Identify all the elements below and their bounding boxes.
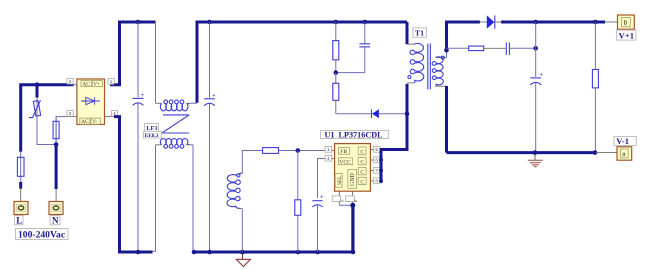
- svg-text:8: 8: [375, 179, 378, 184]
- varistor RV (on L-N): [29, 98, 41, 118]
- wire top rail section 2 (primary HV rail): [197, 22, 407, 103]
- svg-text:GND: GND: [350, 173, 356, 186]
- node junction clamp: [334, 70, 339, 75]
- terminal V-1: [617, 147, 632, 160]
- node junction clamp cap on rail2: [363, 20, 368, 25]
- wire IC ground drop (thick): [351, 205, 354, 252]
- pin 4 of U1 (VCC): [325, 155, 335, 161]
- node junction VCC cap bottom: [315, 250, 320, 255]
- node junction varistor tap on L wire: [35, 82, 40, 87]
- wire bulk cap C1 upper lead: [137, 22, 139, 97]
- node junction rail2 / cap C2: [207, 20, 212, 25]
- terminal L: [14, 202, 28, 215]
- resistor R-snub: [469, 46, 484, 51]
- wire right bottom rail (primary ground rail): [193, 205, 353, 252]
- svg-text:4: 4: [327, 156, 330, 161]
- wire V+1 terminal lead: [605, 21, 618, 23]
- pin 3 of bridge: [67, 111, 77, 117]
- op-amp U1 body (controller IC): [335, 144, 371, 192]
- node junction pin7 on bus: [379, 169, 383, 173]
- inductor LF1 bottom winding: [156, 144, 162, 146]
- wire VCC pin to cap: [318, 159, 325, 198]
- wire C-out lower lead: [535, 83, 537, 153]
- capacitor C1 (bulk electrolytic, left): [133, 93, 145, 105]
- bridge rectifier BR1 body: [77, 79, 105, 125]
- diode D-clamp (pointing left): [372, 109, 408, 118]
- node junction pins 2-3: [350, 203, 355, 208]
- svg-text:C: C: [360, 160, 364, 166]
- wire VCC cap bottom lead: [317, 205, 319, 252]
- resistor R-clamp2: [333, 73, 339, 114]
- node junction pin6 on bus: [379, 158, 383, 162]
- node junction earth on output rail: [533, 150, 538, 155]
- svg-text:0: 0: [624, 19, 628, 27]
- terminal N: [49, 202, 63, 215]
- wire pin2 hook to pin3 node: [339, 204, 352, 206]
- capacitor C-vcc (VCC bypass): [312, 195, 324, 207]
- capacitor C2 (bulk electrolytic, right): [204, 94, 216, 106]
- wire cap C2 lower lead to bottom rail: [209, 104, 211, 252]
- svg-text:AC: AC: [82, 82, 90, 88]
- wire L lower stub: [19, 182, 22, 189]
- svg-text:V-: V-: [92, 119, 97, 125]
- wire choke input drop (rail1 end down to LF1 top winding): [155, 22, 157, 103]
- node junction on rail1 for bulk cap C1: [136, 20, 141, 25]
- resistor R-fb (series FB resistor): [263, 148, 325, 154]
- resistor R-clamp1: [333, 22, 339, 73]
- svg-text:N: N: [52, 215, 59, 225]
- svg-text:+: +: [320, 195, 324, 201]
- node junction LF1 right terminal: [192, 250, 197, 255]
- svg-text:LF1: LF1: [146, 125, 157, 132]
- wire bridge pin4 down to left bottom rail: [114, 117, 153, 252]
- wire LF1 bottom-left terminal down to left bottom rail: [152, 145, 156, 251]
- wire LF1 top winding right end to rail2 corner: [190, 102, 197, 104]
- node junction C-out on rail3: [533, 20, 538, 25]
- svg-text:2: 2: [69, 79, 72, 84]
- LF1 core (Z shape): [162, 115, 189, 133]
- svg-text:LP3716CDL: LP3716CDL: [339, 130, 384, 139]
- transformer T1 primary winding: [407, 43, 424, 83]
- node junction pin8 on bus: [379, 179, 383, 183]
- terminal V+1: [618, 15, 635, 29]
- wire bulk cap C1 lower lead to bottom rail: [137, 103, 139, 252]
- svg-text:6: 6: [375, 158, 378, 163]
- svg-text:AC: AC: [81, 119, 89, 125]
- transformer T1 core: [428, 44, 431, 90]
- wire L terminal lead: [20, 189, 22, 202]
- pin 4 of bridge: [105, 111, 118, 117]
- svg-text:7: 7: [375, 168, 378, 173]
- wire drain bus (pins 5-8 to transformer primary): [381, 84, 407, 182]
- svg-text:100-240Vac: 100-240Vac: [18, 230, 66, 241]
- label U1 LP3716CDL: [321, 130, 389, 139]
- wire clamp to diode: [336, 113, 372, 115]
- wire snubber from secondary node: [447, 47, 469, 49]
- pin 5 of U1: [370, 146, 381, 152]
- wire V-1 terminal lead: [596, 152, 617, 154]
- svg-text:C: C: [360, 179, 364, 185]
- svg-text:V+1: V+1: [619, 30, 634, 40]
- resistor R-NTC (inrush, N line): [53, 117, 59, 145]
- wire LF1 bottom-right terminal down to right bottom rail: [192, 145, 194, 252]
- capacitor C-clamp: [359, 22, 370, 73]
- wire C-out upper lead: [535, 22, 537, 77]
- node junction clamp resistor on rail2: [334, 20, 339, 25]
- node junction IC ground drop corner: [351, 250, 356, 255]
- pin 7 of U1: [370, 167, 381, 173]
- svg-text:C: C: [360, 170, 364, 176]
- diode D-out (output rectifier, pointing right): [487, 15, 495, 28]
- pin 2 of bridge: [67, 78, 77, 84]
- resistor R-load: [592, 22, 598, 153]
- node junction drain / clamp diode: [405, 111, 410, 116]
- wire rail2 corner down to T1 primary: [406, 22, 409, 44]
- fuse F (on L line): [17, 152, 24, 182]
- wire top rail section 3 (output): [447, 22, 481, 50]
- node junction FB divider bottom: [296, 250, 301, 255]
- svg-text:T1: T1: [415, 29, 424, 38]
- label V+1: [617, 30, 636, 40]
- wire L input top (terminal to bridge pin2 row): [21, 85, 74, 152]
- wire clamp RC join: [336, 72, 365, 74]
- earth ground symbol (output): [528, 153, 543, 167]
- svg-text:5: 5: [375, 147, 378, 152]
- svg-text:L: L: [16, 215, 22, 225]
- wire snubber to output cap node: [509, 47, 535, 49]
- svg-text:3: 3: [353, 200, 358, 203]
- wire secondary bottom to output ground rail: [445, 86, 448, 153]
- pin 1 of U1 (FB): [325, 146, 335, 152]
- resistor R-fb2 (FB divider lower): [295, 151, 301, 253]
- svg-text:3: 3: [69, 111, 72, 116]
- label L: [15, 215, 24, 225]
- node junction FB divider: [296, 148, 301, 153]
- wire N line (terminal up through resistor to bridge pin3): [56, 117, 67, 145]
- wire N terminal lead: [55, 189, 57, 202]
- wire snubber mid: [484, 47, 506, 49]
- svg-text:V+: V+: [93, 82, 100, 88]
- svg-text:SEL: SEL: [337, 176, 343, 185]
- label T1: [413, 28, 427, 38]
- node junction cap C2 bottom: [207, 250, 212, 255]
- transformer T1 secondary winding: [432, 50, 446, 86]
- svg-text:FB: FB: [340, 149, 347, 155]
- svg-text:C: C: [360, 149, 364, 155]
- wire top rail section 1 (bridge output to bulk cap): [110, 22, 156, 85]
- node junction primary ground (dot overlay): [240, 250, 245, 255]
- wire varistor upper stub: [36, 85, 39, 98]
- wire rail3 right of diode: [501, 21, 605, 24]
- pin 2 of U1 (bottom left): [332, 191, 345, 205]
- capacitor C-out (output electrolytic): [530, 72, 543, 85]
- ground symbol (primary, triangle): [236, 252, 250, 267]
- svg-text:1: 1: [327, 147, 330, 152]
- wire varistor bottom to N line: [37, 118, 56, 145]
- node junction R-load on rail3: [593, 20, 598, 25]
- pin 3 of U1 (bottom right): [346, 191, 358, 205]
- node junction V-1 tap: [593, 150, 598, 155]
- pin 8 of U1: [370, 178, 381, 184]
- wire diode leads (gray): [479, 21, 487, 23]
- label N: [50, 215, 60, 225]
- label LF1 designator box: [144, 123, 162, 138]
- node junction bulk cap C1 on left bottom rail: [136, 250, 141, 255]
- svg-text:U1: U1: [325, 130, 335, 139]
- svg-text:1: 1: [110, 79, 113, 84]
- svg-text:V-1: V-1: [616, 136, 629, 146]
- svg-text:EE8.3: EE8.3: [145, 133, 159, 139]
- node junction secondary top / snubber: [444, 48, 449, 53]
- inductor L-aux (auxiliary winding): [227, 151, 263, 253]
- wire cap C2 upper lead: [209, 22, 211, 98]
- inductor LF1 top winding: [156, 102, 162, 104]
- node junction primary ground: [240, 250, 245, 255]
- node junction N / varistor: [54, 142, 59, 147]
- pin 1 of bridge: [108, 78, 114, 84]
- label V-1: [614, 136, 636, 146]
- wire N lower segment: [55, 145, 58, 190]
- svg-text:2: 2: [340, 200, 345, 203]
- svg-text:VCC: VCC: [339, 160, 351, 166]
- node junction snubber / C-out line: [533, 46, 538, 51]
- wire output ground rail: [447, 151, 597, 154]
- pin 6 of U1: [370, 157, 381, 163]
- label 100-240Vac: [16, 229, 68, 241]
- capacitor C-snub: [506, 42, 509, 55]
